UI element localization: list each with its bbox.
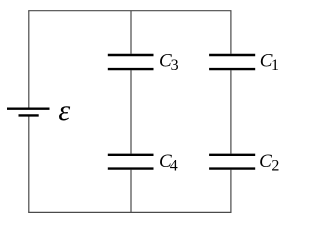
svg-text:C: C [259,151,272,172]
svg-text:4: 4 [170,158,178,175]
svg-text:ε: ε [58,94,70,127]
svg-text:3: 3 [171,57,179,74]
svg-text:2: 2 [271,158,279,175]
svg-text:1: 1 [271,57,279,74]
